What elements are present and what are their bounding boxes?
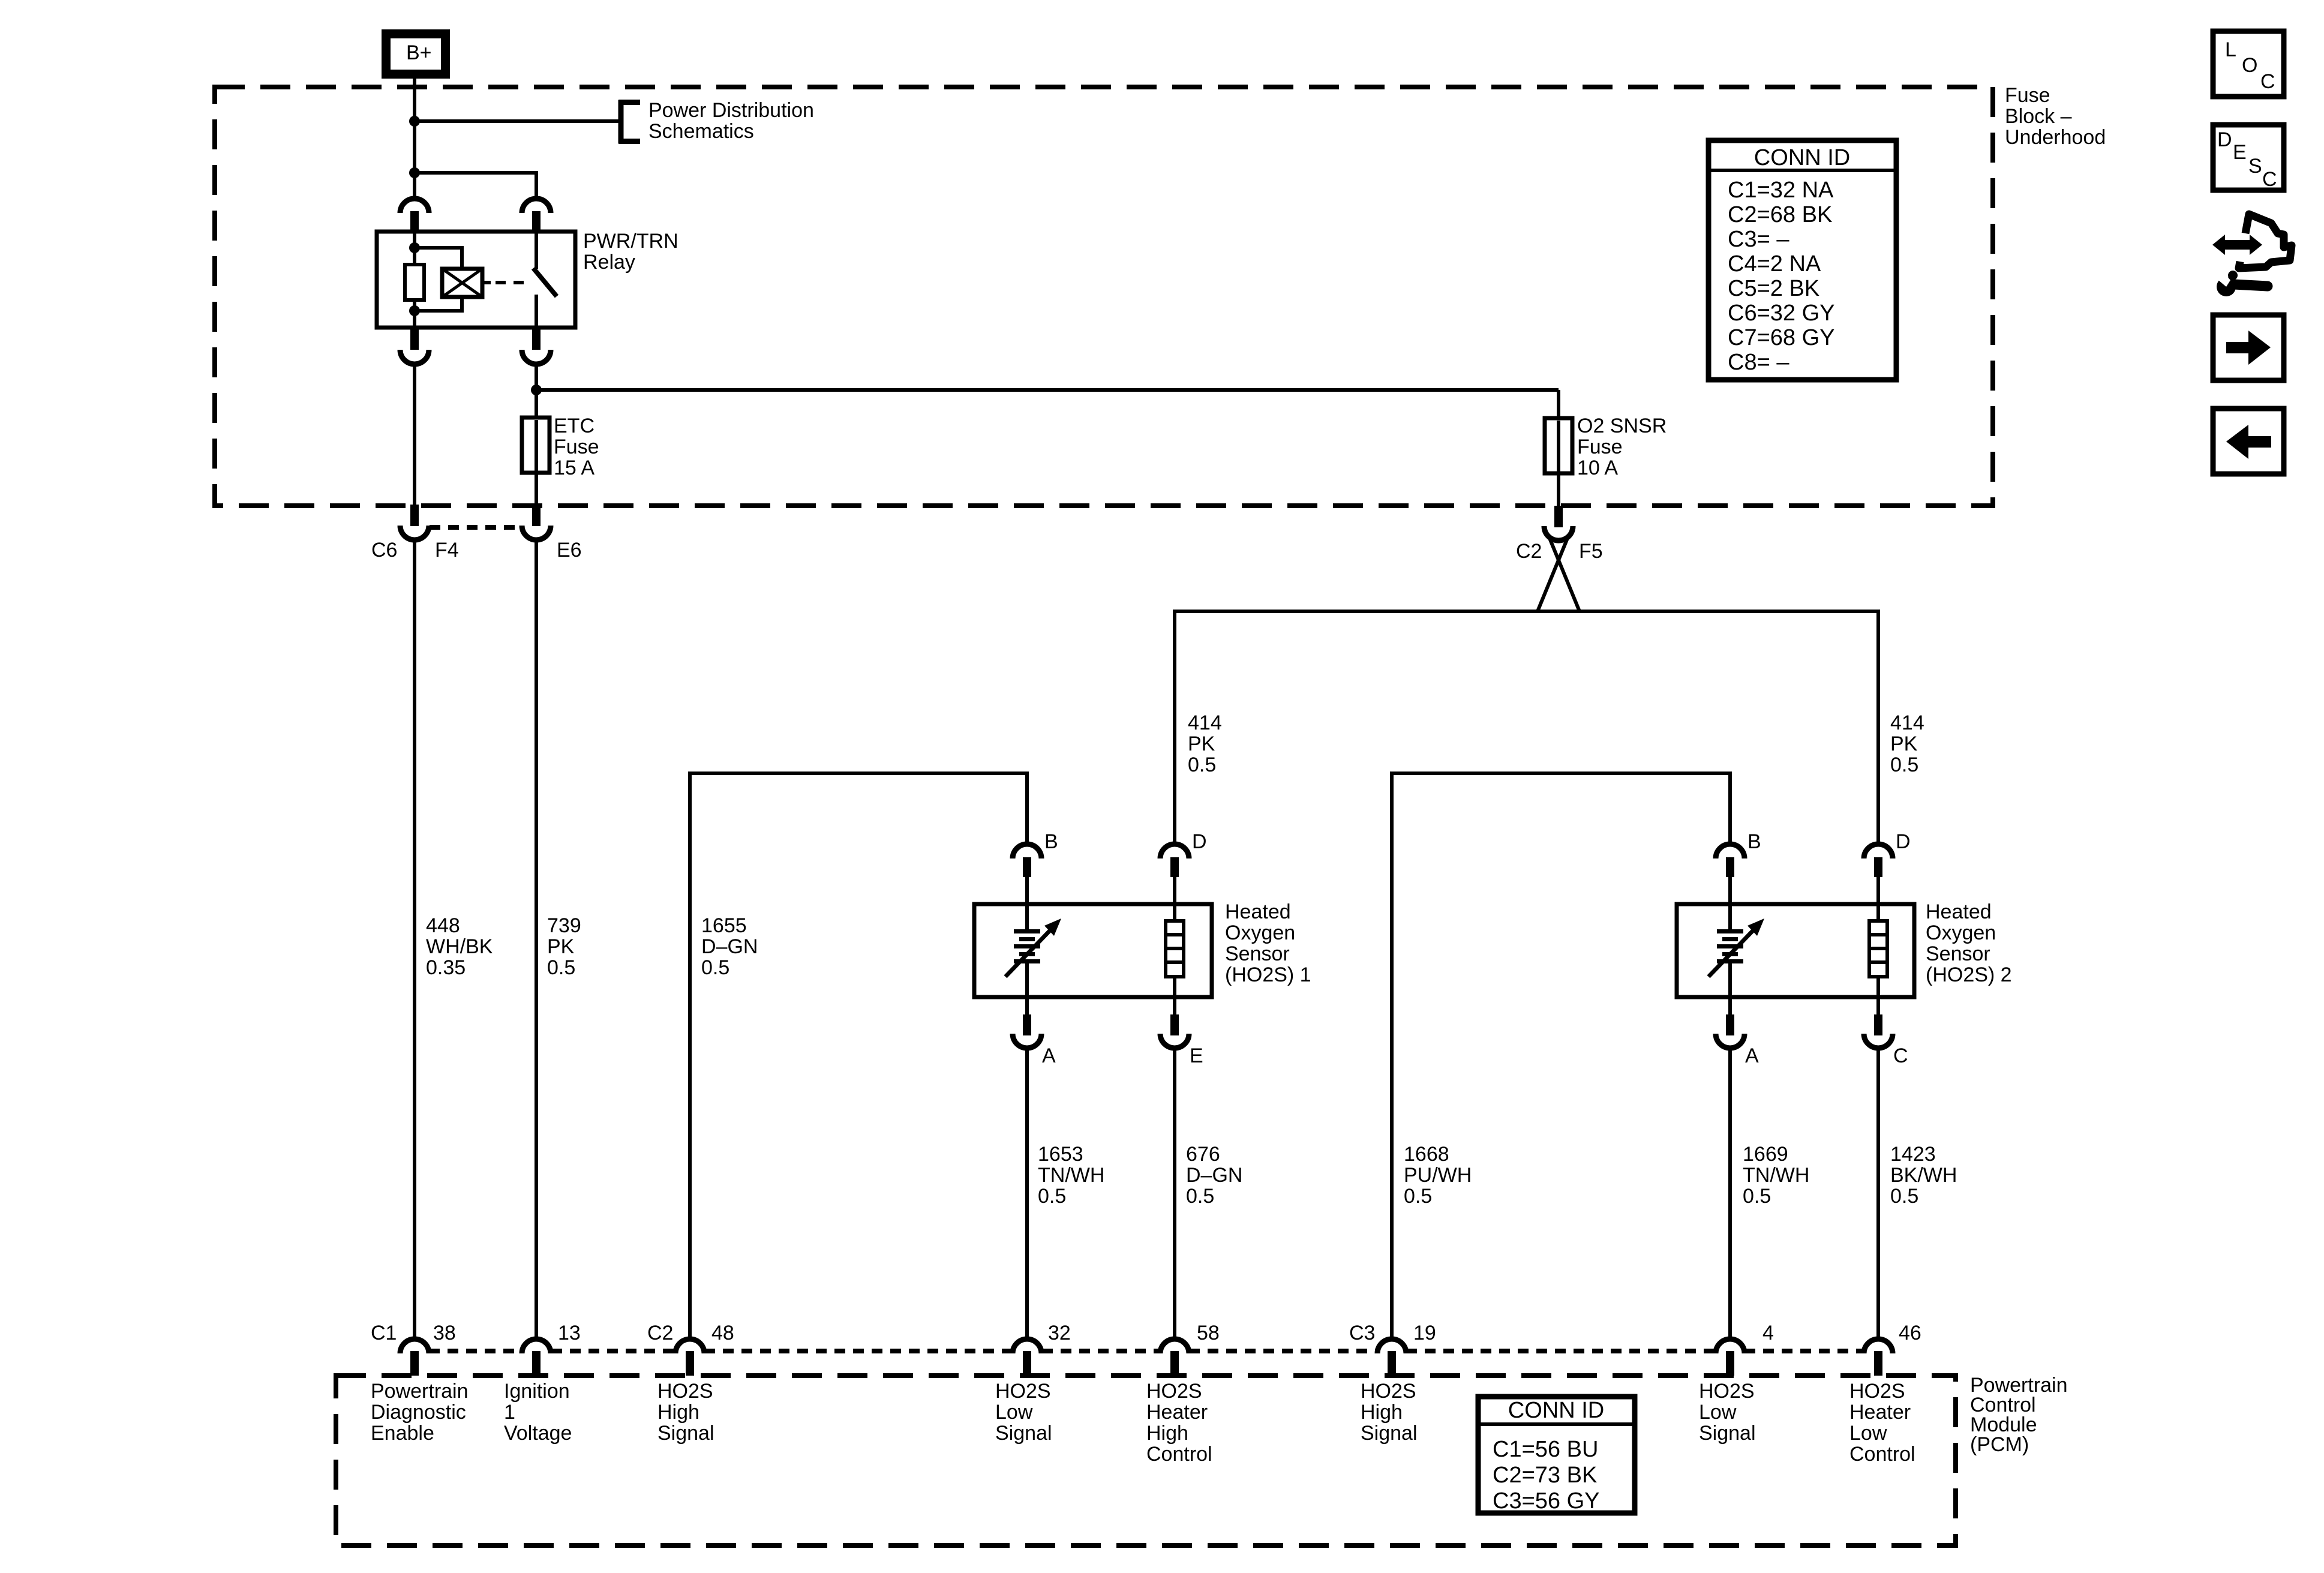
label HO2S Low Signal 1: [995, 1380, 1052, 1445]
wire relay coil leg: [413, 232, 416, 266]
svg-text:HO2S: HO2S: [1699, 1380, 1755, 1403]
HO2S1 pin E connector: [1160, 997, 1189, 1048]
svg-text:Control: Control: [1146, 1443, 1212, 1466]
svg-text:32: 32: [1048, 1322, 1071, 1344]
svg-text:ETC: ETC: [554, 415, 594, 437]
svg-text:S: S: [2248, 155, 2262, 178]
svg-text:Signal: Signal: [1699, 1422, 1756, 1445]
svg-text:1: 1: [504, 1401, 515, 1424]
wire 1423 BK/WH HO2S2 C to PCM pin 46: [1876, 1047, 1880, 1337]
svg-text:C: C: [1893, 1044, 1908, 1067]
connector C2/F5 pin at fuse block: [1544, 506, 1573, 541]
svg-text:D: D: [1896, 830, 1911, 853]
svg-text:F4: F4: [435, 539, 459, 562]
label 1668 PU/WH 0.5: [1404, 1143, 1472, 1208]
wire B+ down to relay pin: [413, 74, 416, 200]
svg-text:C6=32 GY: C6=32 GY: [1728, 301, 1835, 326]
svg-text:Low: Low: [1849, 1422, 1887, 1445]
relay switch-side bottom pin connector: [522, 328, 551, 364]
svg-text:414: 414: [1188, 712, 1222, 734]
svg-text:HO2S: HO2S: [657, 1380, 713, 1403]
svg-text:C8= –: C8= –: [1728, 350, 1789, 375]
fuse O2 SNSR 10A: [1545, 418, 1572, 473]
sidebar back arrow box: [2213, 409, 2284, 474]
svg-text:1655: 1655: [701, 914, 747, 937]
relay PWR/TRN box: [377, 232, 575, 328]
svg-text:CONN ID: CONN ID: [1508, 1398, 1604, 1423]
svg-text:10 A: 10 A: [1577, 457, 1618, 479]
svg-text:C4=2 NA: C4=2 NA: [1728, 251, 1821, 277]
svg-text:B: B: [1747, 830, 1761, 853]
svg-text:Fuse: Fuse: [1577, 436, 1623, 458]
heater element HO2S1: [1166, 904, 1184, 997]
heated oxygen sensor 1 box: [974, 904, 1212, 997]
svg-text:414: 414: [1890, 712, 1924, 734]
wire ETC fuse to E6: [535, 470, 538, 506]
PCM pin 32 connector: [1013, 1339, 1041, 1376]
label HO2S Heater Low Control: [1849, 1380, 1915, 1466]
fuse ETC 15A: [522, 418, 550, 473]
heater element HO2S2: [1869, 904, 1887, 997]
label Powertrain Control Module (PCM): [1970, 1374, 2068, 1456]
relay switch-side top pin connector: [522, 199, 551, 233]
PCM pin 58 connector: [1160, 1339, 1189, 1376]
sidebar LOC icon box: [2213, 31, 2284, 97]
svg-text:Diagnostic: Diagnostic: [371, 1401, 466, 1424]
relay coil-side bottom pin connector: [400, 328, 429, 364]
label 676 D-GN 0.5: [1186, 1143, 1242, 1208]
svg-text:High: High: [657, 1401, 699, 1424]
svg-text:C5=2 BK: C5=2 BK: [1728, 276, 1819, 301]
svg-text:O2 SNSR: O2 SNSR: [1577, 415, 1667, 437]
PCM pin 46 connector: [1864, 1339, 1893, 1376]
svg-text:Low: Low: [1699, 1401, 1737, 1424]
svg-text:Signal: Signal: [1361, 1422, 1418, 1445]
svg-text:E6: E6: [557, 539, 582, 562]
wire coil branch top: [415, 248, 462, 269]
svg-text:High: High: [1361, 1401, 1403, 1424]
svg-text:Low: Low: [995, 1401, 1033, 1424]
CONN ID table PCM: [1478, 1397, 1635, 1514]
wire feed to O2 SNSR fuse: [536, 388, 1559, 392]
HO2S1 pin A connector: [1013, 997, 1041, 1048]
HO2S2 pin D connector: [1864, 844, 1893, 905]
wire coil branch bottom: [415, 297, 462, 311]
PCM pin 13 connector: [522, 1339, 551, 1376]
svg-text:0.35: 0.35: [426, 956, 466, 979]
svg-text:Fuse: Fuse: [2005, 84, 2050, 107]
svg-text:D–GN: D–GN: [1186, 1164, 1242, 1187]
wire 414 PK down to HO2S1 pin D: [1173, 610, 1176, 844]
connector row dashed line F4 to E6: [430, 525, 522, 530]
node junction to power distribution: [409, 116, 420, 127]
svg-text:Relay: Relay: [583, 251, 635, 274]
wire relay output to C6 F4: [413, 363, 416, 507]
svg-text:L: L: [2225, 38, 2236, 61]
svg-text:Underhood: Underhood: [2005, 126, 2106, 149]
svg-text:Oxygen: Oxygen: [1225, 921, 1295, 944]
svg-text:C3=56 GY: C3=56 GY: [1493, 1488, 1600, 1514]
svg-text:C1=32 NA: C1=32 NA: [1728, 178, 1834, 203]
label 739 PK 0.5: [547, 914, 581, 979]
label HO2S High Signal 1: [657, 1380, 714, 1445]
label Powertrain Diagnostic Enable: [371, 1380, 469, 1445]
HO2S1 pin D connector: [1160, 844, 1189, 905]
svg-text:D–GN: D–GN: [701, 935, 758, 958]
svg-text:A: A: [1745, 1044, 1759, 1067]
label 448 WH/BK 0.35: [426, 914, 493, 979]
heated oxygen sensor 2 box: [1677, 904, 1914, 997]
svg-text:C3= –: C3= –: [1728, 227, 1789, 252]
svg-text:D: D: [2217, 128, 2232, 151]
relay coil box with X: [442, 269, 482, 297]
label Heated Oxygen Sensor (HO2S) 2: [1926, 900, 2012, 986]
svg-text:0.5: 0.5: [1890, 1185, 1918, 1208]
svg-text:PU/WH: PU/WH: [1404, 1164, 1472, 1187]
svg-text:48: 48: [711, 1322, 734, 1344]
svg-text:Heated: Heated: [1926, 900, 1992, 923]
wire resistor bottom to relay box: [413, 298, 416, 328]
svg-text:1668: 1668: [1404, 1143, 1449, 1166]
svg-text:C2: C2: [1516, 540, 1542, 563]
node relay coil top junction: [409, 242, 420, 253]
svg-text:0.5: 0.5: [1743, 1185, 1771, 1208]
wire 1655 D-GN PCM pin 48 up and over to HO2S1 pin B: [688, 772, 1029, 1337]
svg-text:1669: 1669: [1743, 1143, 1788, 1166]
svg-text:676: 676: [1186, 1143, 1220, 1166]
sidebar forward arrow box: [2213, 315, 2284, 380]
wire 448 WH/BK from F4 to PCM pin 38: [413, 539, 416, 1337]
svg-text:C: C: [2260, 70, 2275, 93]
svg-text:0.5: 0.5: [1404, 1185, 1432, 1208]
label HO2S High Signal 2: [1361, 1380, 1418, 1445]
svg-text:Sensor: Sensor: [1926, 942, 1990, 965]
svg-text:PWR/TRN: PWR/TRN: [583, 230, 678, 253]
svg-text:15 A: 15 A: [554, 457, 594, 479]
svg-text:13: 13: [558, 1322, 581, 1344]
svg-text:Fuse: Fuse: [554, 436, 599, 458]
sidebar repair-info icon (car outline, double arrow, wrench): [2212, 214, 2292, 296]
svg-text:Signal: Signal: [657, 1422, 714, 1445]
HO2S2 pin B connector: [1716, 844, 1744, 905]
svg-text:Schematics: Schematics: [648, 120, 754, 143]
label HO2S Low Signal 2: [1699, 1380, 1756, 1445]
svg-text:HO2S: HO2S: [1361, 1380, 1416, 1403]
relay coil actuating dashed link: [482, 281, 529, 284]
node relay coil bottom junction: [409, 305, 420, 316]
svg-text:HO2S: HO2S: [995, 1380, 1051, 1403]
sensor element symbol HO2S2: [1709, 904, 1764, 997]
label 414 PK 0.5 right: [1890, 712, 1924, 776]
label 1653 TN/WH 0.5: [1038, 1143, 1104, 1208]
svg-text:0.5: 0.5: [701, 956, 729, 979]
wire relay switch output down: [535, 363, 538, 420]
wire 414 PK down to HO2S2 pin D: [1876, 610, 1880, 844]
svg-text:PK: PK: [1890, 733, 1918, 755]
svg-text:A: A: [1042, 1044, 1056, 1067]
svg-text:C2: C2: [647, 1322, 673, 1344]
svg-text:TN/WH: TN/WH: [1743, 1164, 1809, 1187]
svg-text:(HO2S) 1: (HO2S) 1: [1225, 963, 1311, 986]
svg-text:Powertrain: Powertrain: [371, 1380, 469, 1403]
svg-text:HO2S: HO2S: [1146, 1380, 1202, 1403]
svg-text:Oxygen: Oxygen: [1926, 921, 1996, 944]
svg-text:O: O: [2242, 54, 2257, 77]
label Fuse Block - Underhood: [2005, 84, 2106, 149]
relay coil-side top pin connector: [400, 199, 429, 233]
svg-text:D: D: [1192, 830, 1207, 853]
svg-text:1423: 1423: [1890, 1143, 1936, 1166]
svg-text:E: E: [2233, 141, 2247, 164]
svg-text:Voltage: Voltage: [504, 1422, 572, 1445]
resistor inside relay: [405, 265, 424, 300]
connector E6 pin at fuse block: [522, 505, 551, 540]
svg-text:46: 46: [1899, 1322, 1921, 1344]
powertrain control module dashed box: [336, 1376, 1956, 1545]
svg-text:CONN ID: CONN ID: [1754, 145, 1850, 170]
svg-text:C1: C1: [371, 1322, 397, 1344]
svg-text:Sensor: Sensor: [1225, 942, 1290, 965]
label 414 PK 0.5 left: [1188, 712, 1222, 776]
wire 739 PK from E6 to PCM pin 13: [535, 539, 538, 1337]
svg-text:C2=73 BK: C2=73 BK: [1493, 1463, 1597, 1488]
wire O2 SNSR fuse to F5: [1557, 470, 1560, 508]
sensor element symbol HO2S1: [1005, 904, 1061, 997]
battery feed B+ power symbol: [386, 34, 446, 74]
svg-text:C2=68 BK: C2=68 BK: [1728, 202, 1832, 227]
label O2 SNSR Fuse 10 A: [1577, 415, 1667, 479]
svg-text:(HO2S) 2: (HO2S) 2: [1926, 963, 2012, 986]
svg-text:PK: PK: [1188, 733, 1215, 755]
node junction to relay switch branch: [409, 167, 420, 178]
svg-text:0.5: 0.5: [1188, 754, 1216, 776]
svg-text:PK: PK: [547, 935, 575, 958]
svg-text:0.5: 0.5: [547, 956, 575, 979]
label 1655 D-GN 0.5: [701, 914, 758, 979]
svg-text:1653: 1653: [1038, 1143, 1083, 1166]
label Heated Oxygen Sensor (HO2S) 1: [1225, 900, 1311, 986]
PCM connector row dashed line: [429, 1349, 1864, 1353]
svg-text:19: 19: [1413, 1322, 1436, 1344]
wire splice X below F5: [1538, 538, 1580, 611]
svg-text:C3: C3: [1349, 1322, 1375, 1344]
svg-text:0.5: 0.5: [1186, 1185, 1214, 1208]
svg-text:C7=68 GY: C7=68 GY: [1728, 325, 1835, 350]
wire 1669 TN/WH HO2S2 A to PCM pin 4: [1728, 1047, 1732, 1337]
PCM pin C1-38 connector: [400, 1339, 429, 1376]
svg-text:B+: B+: [406, 41, 432, 64]
svg-text:F5: F5: [1579, 540, 1603, 563]
node junction to O2 SNSR fuse feed: [531, 385, 542, 395]
PCM pin C3-19 connector: [1377, 1339, 1406, 1376]
sidebar DESC icon box: [2213, 125, 2284, 191]
svg-text:HO2S: HO2S: [1849, 1380, 1905, 1403]
wire 1668 PU/WH PCM pin 19 up and over to HO2S2 pin B: [1390, 772, 1732, 1337]
svg-text:Ignition: Ignition: [504, 1380, 570, 1403]
svg-text:Block –: Block –: [2005, 105, 2072, 128]
svg-text:0.5: 0.5: [1038, 1185, 1066, 1208]
HO2S1 pin B connector: [1013, 844, 1041, 905]
svg-text:WH/BK: WH/BK: [426, 935, 493, 958]
svg-text:Heated: Heated: [1225, 900, 1291, 923]
svg-text:Power Distribution: Power Distribution: [648, 99, 814, 122]
svg-text:B: B: [1044, 830, 1058, 853]
svg-text:58: 58: [1197, 1322, 1220, 1344]
svg-text:Signal: Signal: [995, 1422, 1052, 1445]
PCM pin C2-48 connector: [675, 1339, 704, 1376]
HO2S2 pin C connector: [1864, 997, 1893, 1048]
svg-text:Heater: Heater: [1146, 1401, 1208, 1424]
svg-text:Heater: Heater: [1849, 1401, 1911, 1424]
svg-text:448: 448: [426, 914, 460, 937]
svg-text:C1=56 BU: C1=56 BU: [1493, 1437, 1598, 1462]
svg-text:C6: C6: [371, 539, 397, 562]
label 1423 BK/WH 0.5: [1890, 1143, 1957, 1208]
svg-text:TN/WH: TN/WH: [1038, 1164, 1104, 1187]
label 1669 TN/WH 0.5: [1743, 1143, 1809, 1208]
wire to power distribution schematics: [415, 119, 619, 123]
svg-text:Enable: Enable: [371, 1422, 434, 1445]
svg-text:(PCM): (PCM): [1970, 1433, 2029, 1456]
svg-text:C: C: [2262, 168, 2277, 191]
PCM pin 4 connector: [1716, 1339, 1744, 1376]
HO2S2 pin A connector: [1716, 997, 1744, 1048]
label Ignition 1 Voltage: [504, 1380, 572, 1445]
wire 1653 TN/WH HO2S1 A to PCM pin 32: [1025, 1047, 1029, 1337]
connector C6/F4 pin at fuse block: [400, 505, 429, 540]
svg-text:Control: Control: [1849, 1443, 1915, 1466]
wire 676 D-GN HO2S1 E to PCM pin 58: [1173, 1047, 1176, 1337]
svg-text:38: 38: [433, 1322, 456, 1344]
svg-text:739: 739: [547, 914, 581, 937]
wire branch to relay switch pin: [415, 171, 536, 175]
label HO2S Heater High Control: [1146, 1380, 1212, 1466]
CONN ID table fuse block: [1709, 140, 1896, 380]
power distribution schematics bracket: [618, 99, 814, 143]
svg-text:0.5: 0.5: [1890, 754, 1918, 776]
relay switch contact: [533, 232, 557, 328]
fuse block underhood dashed box: [215, 87, 1993, 506]
label PWR/TRN Relay: [583, 230, 678, 274]
svg-text:BK/WH: BK/WH: [1890, 1164, 1957, 1187]
svg-text:4: 4: [1762, 1322, 1774, 1344]
svg-text:E: E: [1190, 1044, 1203, 1067]
label ETC Fuse 15 A: [554, 415, 599, 479]
wire 414 PK distribution to both sensors: [1175, 610, 1880, 613]
svg-text:High: High: [1146, 1422, 1188, 1445]
